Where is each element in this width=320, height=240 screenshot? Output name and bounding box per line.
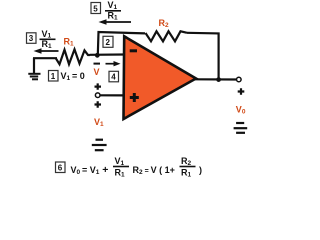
wire xyxy=(33,57,57,59)
svg-text:V1: V1 xyxy=(94,117,104,128)
ground below V0 xyxy=(234,123,248,133)
svg-text:R1: R1 xyxy=(108,11,119,22)
svg-text:): ) xyxy=(199,165,202,175)
step box 4 xyxy=(109,71,119,82)
svg-text:V0 = V1 +: V0 = V1 + xyxy=(71,164,109,176)
svg-text:V1: V1 xyxy=(115,156,125,167)
svg-text:4: 4 xyxy=(111,73,116,82)
node junction inverting input xyxy=(95,53,100,58)
arrow at node V xyxy=(106,61,121,66)
svg-text:R1: R1 xyxy=(42,39,53,50)
plus below non-inverting terminal xyxy=(95,101,102,107)
svg-text:V1: V1 xyxy=(42,29,52,40)
step box 6 xyxy=(56,162,66,173)
resistor R1 xyxy=(56,49,91,64)
svg-text:V1 = 0: V1 = 0 xyxy=(61,71,85,82)
wire xyxy=(90,53,124,55)
resistor R2 xyxy=(146,31,188,41)
op-amp U1 xyxy=(124,36,197,119)
svg-text:V: V xyxy=(94,67,100,77)
svg-text:V0: V0 xyxy=(236,105,246,116)
ground xyxy=(28,58,40,79)
node output junction xyxy=(216,77,221,82)
ground below V1 xyxy=(92,140,107,151)
minus sign at node V xyxy=(94,63,101,65)
step box 3 xyxy=(27,33,37,44)
step box 2 xyxy=(103,36,113,47)
non-inverting input terminal xyxy=(95,93,100,98)
fraction V1/R1 step5 xyxy=(105,0,121,22)
svg-text:2: 2 xyxy=(106,38,111,47)
svg-text:3: 3 xyxy=(29,34,34,43)
wire xyxy=(187,33,219,80)
wire xyxy=(195,78,236,80)
plus at output xyxy=(238,88,245,94)
svg-text:V1: V1 xyxy=(108,0,118,11)
formula xyxy=(71,156,203,179)
plus above non-inverting terminal xyxy=(95,83,102,89)
svg-text:R2: R2 xyxy=(181,156,192,167)
output terminal xyxy=(237,77,242,82)
svg-text:1: 1 xyxy=(51,72,56,81)
svg-text:6: 6 xyxy=(58,163,63,172)
svg-text:R1: R1 xyxy=(64,37,75,48)
svg-text:R2: R2 xyxy=(159,18,170,29)
wire xyxy=(98,32,145,55)
svg-text:R2 = V ( 1+: R2 = V ( 1+ xyxy=(133,165,175,176)
step box 1 xyxy=(49,71,59,82)
step box 5 xyxy=(91,3,101,14)
svg-text:R1: R1 xyxy=(115,168,126,179)
arrow step 5 (current direction) xyxy=(99,19,132,25)
svg-text:5: 5 xyxy=(93,5,98,14)
arrow step 3 xyxy=(34,48,59,54)
wire xyxy=(100,94,123,96)
svg-text:R1: R1 xyxy=(181,168,192,179)
fraction V1/R1 step3 xyxy=(40,29,56,50)
